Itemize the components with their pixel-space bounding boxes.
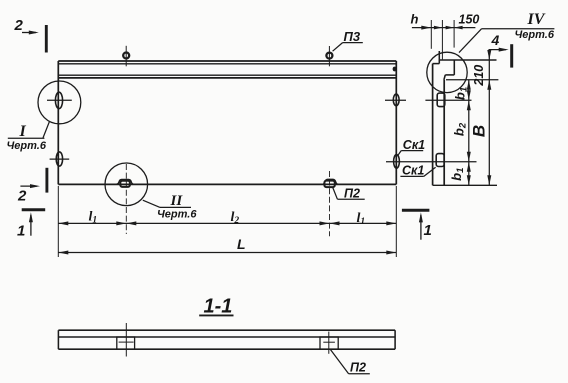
label IV underline [482,28,555,30]
lifting loop П3 circle [326,53,332,59]
ext line 150 right [453,20,455,48]
tick through right upper key [385,99,406,101]
panel plan view top edge line 2 [58,63,396,65]
svg-text:Ск1: Ск1 [403,138,425,152]
section marker 2 bottom arrow [20,185,37,187]
detail circle IV [427,52,467,92]
section bar top edge [58,329,395,331]
tongue jog [433,63,440,65]
П2 box right in section [320,337,338,349]
section bar bottom edge [58,348,395,350]
arrow 150 [446,26,455,30]
section title underline [199,314,233,316]
label IV leader [459,29,482,53]
arrow B top [487,80,491,90]
extension line right edge [395,186,397,257]
ext line h right [441,20,443,59]
arrow 210 top [487,50,491,60]
panel plan view top edge line 1 [58,60,396,62]
svg-text:IV: IV [527,11,546,28]
side view left edge [432,64,434,186]
svg-text:Черт.6: Черт.6 [157,208,197,220]
section bar left end [57,330,59,349]
svg-text:П2: П2 [344,187,360,201]
svg-text:B: B [469,125,488,137]
dimension line L [58,252,396,254]
label П2 section leader [331,350,349,374]
section marker 1 right bar [402,209,430,212]
tick through left joint key [50,158,70,160]
lifting loop П3 centerline [328,46,330,66]
arrow B bottom [487,175,491,185]
tongue chamfer [444,75,445,80]
Ск1 joint key ellipse [394,155,400,169]
arrows b2 [467,100,471,110]
joint key ellipse left [56,152,62,166]
arrows b1 bottom [467,162,471,172]
section bar right end [394,330,396,349]
tongue top edge + ref [439,59,496,61]
svg-text:2: 2 [17,188,27,205]
Ск1 level line [386,161,477,163]
svg-text:П2: П2 [350,361,366,375]
П2 embed plate left bump [114,180,135,185]
section marker 4 bar [510,44,513,67]
svg-text:150: 150 [459,13,480,27]
svg-text:210: 210 [472,65,486,87]
section marker 4 arrow [489,49,507,51]
П2 box right centerline [328,332,330,354]
label Ск1 lower leader [424,167,436,176]
tongue vertical [438,51,440,64]
svg-text:Ск1: Ск1 [402,164,424,178]
arrows L [58,251,68,255]
label I leader [43,122,49,138]
detail circle II [105,163,148,206]
П2 box right tick [323,341,335,343]
weld mark right edge [393,67,397,72]
П2 box left centerline [125,323,127,357]
section marker 2 top arrow [22,32,36,34]
detail circle I [38,81,81,124]
svg-text:Черт.6: Черт.6 [7,140,47,152]
section marker 2 top bar [45,25,48,53]
section marker 1 left arrow [30,215,32,236]
ref line y80 [446,79,498,81]
label II underline [160,206,191,208]
label П3 leader [333,43,343,52]
label П2 plan underline [337,198,364,200]
svg-text:L: L [237,236,246,252]
svg-text:Черт.6: Черт.6 [515,29,555,41]
side view right edge [443,80,445,186]
label I underline [8,137,45,139]
section marker 1 left bar [22,208,46,211]
section bar inner line [58,336,395,338]
label Ск1 lower underline [400,175,423,177]
extension line left edge [57,186,59,257]
ext line h left [430,20,432,49]
lifting loop left circle [123,53,129,59]
panel plan view top rib line 3 [58,74,396,76]
groove Ск1 upper [437,93,445,107]
label II leader [143,200,160,207]
B 210 dimension line [488,50,490,186]
label П2 plan leader [333,188,338,200]
b dimension line [468,80,470,186]
svg-text:h: h [411,12,419,27]
lifting loop left centerline [125,46,127,67]
label Ск1 upper underline [401,150,423,152]
label Ск1 upper leader [397,151,401,157]
panel plan right edge [395,61,397,184]
arrow h [421,26,431,30]
svg-text:1-1: 1-1 [204,296,233,318]
arrows l1 left [58,221,68,225]
section marker 1 right arrow [420,215,422,240]
ref line y100 [425,99,471,101]
label П2 section underline [349,373,370,375]
centerline through II [125,164,127,234]
svg-text:1: 1 [424,222,432,239]
side view bottom edge + ext [433,184,497,186]
panel plan view top rib line 4 [58,77,396,79]
arrows l2 [126,221,136,225]
centerline through П2 right [329,171,331,236]
arrows l1 right [330,221,340,225]
П2 box left tick [119,341,134,343]
svg-text:1: 1 [17,223,25,240]
svg-text:2: 2 [14,17,24,34]
П2 embed plate right bump [321,179,341,184]
label П3 underline [343,42,363,44]
joint key ellipse right upper [393,94,399,106]
svg-text:4: 4 [491,32,500,48]
embed ellipse in circle I [55,92,62,108]
П2 embed inner box left [120,181,130,187]
tick through embed I [47,99,72,101]
П2 embed inner box right [324,181,334,188]
П2 box left in section [117,337,135,349]
dimension line l1 l2 l1 [58,222,396,224]
tongue bottom [445,74,454,76]
dim line h 150 [412,27,476,29]
svg-text:П3: П3 [344,29,361,44]
svg-text:II: II [170,193,184,209]
svg-text:I: I [19,123,27,140]
section marker 2 bottom bar [45,168,48,193]
tongue right face [453,60,455,75]
groove Ск1 lower [436,154,444,167]
arrows b1 top [467,80,471,90]
panel plan left edge [57,61,59,184]
panel plan bottom edge [58,183,396,185]
